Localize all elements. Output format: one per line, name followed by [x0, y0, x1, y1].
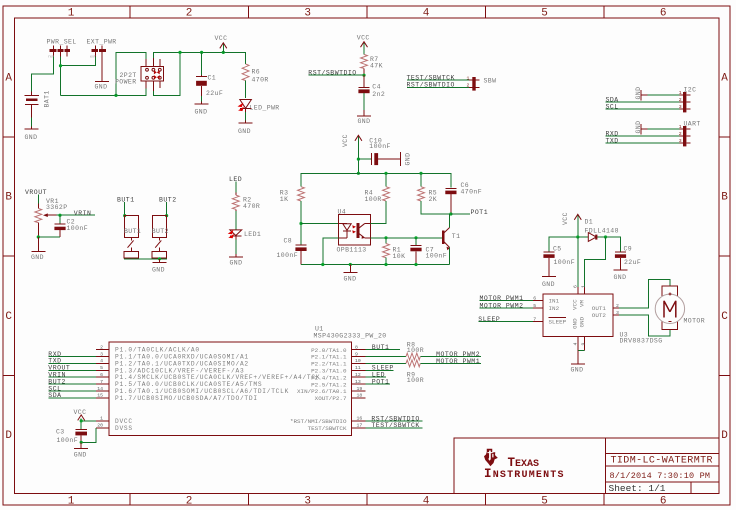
- supply VCC (U1): [74, 409, 87, 429]
- svg-text:13: 13: [355, 379, 361, 385]
- ground U3: [571, 351, 586, 374]
- net label LED (U1): [365, 372, 386, 379]
- net label RXD (U1): [48, 351, 96, 358]
- svg-text:GND: GND: [635, 87, 642, 100]
- U1 left pin names: [115, 347, 320, 432]
- svg-text:OPB1113: OPB1113: [337, 247, 367, 254]
- net label VROUT: [25, 189, 47, 203]
- svg-text:6: 6: [100, 372, 103, 378]
- SEC-CONN: [606, 86, 701, 146]
- svg-text:GND: GND: [542, 281, 555, 288]
- svg-text:D1: D1: [585, 219, 594, 226]
- resistor R5 2K: [418, 173, 438, 203]
- ground LED_PWR: [238, 121, 253, 135]
- wire U4 cathode to ground rail: [323, 238, 339, 265]
- net label POT1: [451, 209, 488, 216]
- connector UART: [679, 120, 701, 146]
- capacitor C5 100nF: [543, 245, 575, 276]
- wire R7 to C4: [363, 68, 365, 75]
- svg-text:22uF: 22uF: [206, 90, 223, 97]
- wire EXT_PWR pin 1 to PWR_SEL pin 2: [61, 57, 96, 66]
- svg-text:8: 8: [355, 344, 358, 350]
- net label BUT1: [117, 197, 135, 216]
- ground LED1: [229, 254, 243, 267]
- resistor R6 470R: [242, 64, 269, 84]
- svg-text:3: 3: [100, 351, 103, 357]
- svg-text:470nF: 470nF: [461, 189, 483, 196]
- svg-text:IN1: IN1: [549, 297, 560, 304]
- capacitor C8 100nF: [277, 238, 307, 265]
- net label BUT2 (U1): [48, 378, 96, 385]
- svg-text:100R: 100R: [407, 347, 424, 354]
- wire VCC rail to C1: [201, 52, 203, 75]
- ground EXT_PWR: [95, 57, 110, 91]
- svg-text:470R: 470R: [243, 203, 260, 210]
- svg-text:1: 1: [68, 495, 75, 507]
- wire pot bottom rail: [38, 236, 60, 238]
- supply VCC (R7): [357, 34, 370, 54]
- junction: [384, 263, 387, 266]
- svg-text:GND: GND: [152, 266, 165, 273]
- title block box: [454, 438, 719, 494]
- net label TXD: [606, 137, 680, 144]
- wire battery to ground: [31, 118, 33, 127]
- svg-text:47K: 47K: [370, 63, 383, 70]
- svg-text:GND: GND: [572, 318, 579, 329]
- ground UART pin1: [635, 121, 679, 135]
- svg-text:16: 16: [357, 416, 363, 422]
- net label VROUT (U1): [48, 365, 96, 372]
- junction: [158, 257, 161, 260]
- svg-text:5: 5: [533, 303, 536, 309]
- capacitor C10 100nF: [358, 138, 394, 166]
- net label RST/SBWTDIO (U1): [365, 415, 422, 422]
- svg-text:SBW: SBW: [484, 78, 497, 85]
- switch BUT2: [152, 216, 169, 259]
- svg-text:3: 3: [616, 310, 619, 316]
- wire PWR_SEL pin 2 down: [60, 57, 62, 96]
- switch S1 2P2T POWER: [115, 58, 164, 91]
- svg-text:C3: C3: [56, 428, 65, 435]
- svg-text:GND: GND: [579, 316, 586, 327]
- U1 right pin names: [290, 347, 347, 432]
- svg-text:15: 15: [97, 393, 103, 399]
- junction: [384, 236, 387, 239]
- net label BUT2: [159, 197, 177, 216]
- supply VCC (sensor): [342, 134, 362, 173]
- svg-text:20: 20: [97, 423, 103, 429]
- wire sensor ground rail: [301, 264, 450, 266]
- wire LED1 to ground: [235, 240, 237, 255]
- svg-text:GND: GND: [74, 452, 87, 459]
- svg-text:7: 7: [100, 379, 103, 385]
- svg-text:GND: GND: [31, 254, 44, 261]
- ground C5: [542, 277, 556, 288]
- ground I2C pin1: [635, 87, 679, 101]
- SEC-POWER: [24, 35, 279, 141]
- svg-text:VM: VM: [579, 299, 586, 307]
- svg-text:12: 12: [355, 372, 361, 378]
- junction: [349, 263, 352, 266]
- svg-text:5: 5: [100, 365, 103, 371]
- junction: [321, 263, 324, 266]
- svg-text:D: D: [721, 430, 728, 442]
- wire switch common to VCC rail: [153, 52, 245, 95]
- jumper PWR_SEL: [47, 39, 77, 60]
- svg-text:100nF: 100nF: [369, 143, 391, 150]
- svg-text:B: B: [721, 192, 728, 204]
- connector I2C: [679, 86, 697, 112]
- U1 left pin lines: [96, 350, 109, 428]
- svg-text:6: 6: [660, 495, 667, 507]
- svg-text:SLEEP: SLEEP: [549, 319, 567, 326]
- svg-text:D: D: [5, 430, 12, 442]
- svg-text:4: 4: [423, 495, 430, 507]
- ground C1: [195, 102, 209, 116]
- ground C4: [357, 110, 371, 125]
- svg-text:100R: 100R: [365, 196, 382, 203]
- capacitor C6 470nF: [445, 182, 482, 214]
- junction: [80, 441, 83, 444]
- wire U4 emitter / base node: [370, 237, 443, 239]
- svg-text:DVSS: DVSS: [115, 425, 133, 432]
- resistor R3 1K: [280, 187, 305, 203]
- svg-text:3362P: 3362P: [46, 204, 68, 211]
- svg-text:A: A: [5, 73, 12, 85]
- net label RST/SBWTDIO (SBW): [407, 81, 470, 88]
- junction: [576, 235, 579, 238]
- SEC-TITLE: [454, 438, 719, 494]
- motor M1: [655, 286, 705, 329]
- svg-text:C5: C5: [553, 245, 562, 252]
- svg-text:DRV8837DSG: DRV8837DSG: [620, 338, 663, 345]
- junction: [449, 212, 452, 215]
- wire VCC to pin 1: [81, 420, 96, 422]
- net label LED: [229, 176, 242, 193]
- net label RST/SBWTDIO: [308, 69, 364, 76]
- logo Texas Instruments: [484, 449, 565, 482]
- svg-text:VCC: VCC: [357, 34, 370, 41]
- svg-text:GND: GND: [95, 84, 108, 91]
- svg-text:6: 6: [660, 7, 667, 19]
- diode D1 FDLL4148: [585, 219, 619, 242]
- IC U3 DRV8837DSG: [533, 285, 663, 351]
- wire R3 to U4 anode node: [300, 201, 302, 245]
- junction: [123, 214, 126, 217]
- svg-text:VROUT: VROUT: [25, 189, 47, 196]
- U1 right pin numbers: [355, 344, 362, 428]
- U1 right pin lines: [352, 350, 366, 428]
- svg-text:9: 9: [355, 351, 358, 357]
- svg-text:2: 2: [616, 303, 619, 309]
- svg-text:4: 4: [423, 7, 430, 19]
- svg-text:14: 14: [97, 386, 103, 392]
- svg-text:C1: C1: [208, 75, 217, 82]
- junction: [37, 235, 40, 238]
- svg-text:10K: 10K: [393, 253, 406, 260]
- svg-text:GND: GND: [358, 118, 371, 125]
- svg-text:VCC: VCC: [74, 409, 87, 416]
- wire battery to PWR_SEL pin 1: [32, 57, 54, 92]
- svg-text:BUT2: BUT2: [152, 228, 169, 235]
- title block row lines: [606, 453, 720, 493]
- svg-text:5: 5: [541, 495, 548, 507]
- svg-text:GND: GND: [195, 109, 208, 116]
- net label RXD: [606, 131, 680, 138]
- wire pin 20 to C3: [81, 428, 96, 443]
- capacitor C2 100nF: [54, 218, 88, 237]
- net label MOTOR_PWM2 (U3): [480, 303, 534, 310]
- net label VRIN (U1): [48, 372, 96, 379]
- battery BAT1: [24, 90, 50, 117]
- svg-text:10: 10: [355, 358, 361, 364]
- svg-text:PWR_SEL: PWR_SEL: [47, 39, 77, 46]
- svg-text:470R: 470R: [252, 77, 269, 84]
- capacitor C9 22uF: [615, 245, 641, 270]
- net label SDA (U1): [48, 392, 96, 399]
- svg-text:C: C: [5, 311, 12, 323]
- SEC-POT: [25, 189, 95, 261]
- net label MOTOR_PWM1 (U3): [480, 295, 534, 302]
- ground VR1: [31, 237, 45, 261]
- svg-text:EXT_PWR: EXT_PWR: [87, 39, 117, 46]
- wire R2 to LED1: [235, 211, 237, 230]
- wire left loop to switch top: [116, 52, 146, 95]
- svg-text:5: 5: [541, 7, 548, 19]
- junction: [604, 235, 607, 238]
- junction: [357, 172, 360, 175]
- svg-text:Sheet: 1/1: Sheet: 1/1: [609, 483, 666, 494]
- svg-text:GND: GND: [344, 276, 357, 283]
- ground C3: [74, 442, 88, 458]
- wire R6 to LED_PWR: [245, 81, 247, 99]
- svg-text:100nF: 100nF: [67, 225, 89, 232]
- svg-text:TEXAS: TEXAS: [508, 456, 540, 470]
- wire VCC rail (motor): [549, 237, 621, 252]
- U1 left pin numbers: [97, 344, 103, 428]
- svg-text:XOUT/P2.7: XOUT/P2.7: [315, 395, 347, 402]
- svg-text:VCC: VCC: [562, 212, 569, 225]
- ground battery: [25, 127, 39, 142]
- supply VCC (motor): [562, 212, 581, 237]
- svg-text:GND: GND: [25, 134, 38, 141]
- svg-text:4: 4: [100, 358, 103, 364]
- supply VCC: [215, 35, 228, 53]
- junction: [299, 222, 302, 225]
- wire anode node to U4: [301, 223, 339, 225]
- svg-text:22uF: 22uF: [624, 259, 641, 266]
- junction: [222, 51, 225, 54]
- svg-text:POT1: POT1: [471, 209, 489, 216]
- svg-text:3: 3: [304, 495, 311, 507]
- svg-text:POWER: POWER: [115, 79, 137, 86]
- net label TXD (U1): [48, 358, 96, 365]
- svg-text:GND: GND: [405, 153, 412, 166]
- net label SLEEP (U1): [365, 365, 393, 372]
- net label POT1 (U1): [365, 379, 390, 386]
- net label SCL (U1): [48, 385, 96, 392]
- resistor R1 10K: [383, 238, 406, 265]
- wire OUT1 to motor: [619, 280, 670, 308]
- svg-text:BUT1: BUT1: [117, 197, 135, 204]
- svg-text:LED_PWR: LED_PWR: [250, 104, 280, 111]
- net label SLEEP (U3): [478, 316, 533, 323]
- junction: [59, 64, 62, 67]
- svg-text:2K: 2K: [429, 196, 438, 203]
- capacitor C4 2n2: [358, 75, 385, 110]
- svg-text:C9: C9: [624, 245, 633, 252]
- svg-text:VCC: VCC: [572, 299, 579, 310]
- svg-text:TEST/SBWTCK: TEST/SBWTCK: [308, 425, 347, 432]
- junction: [384, 172, 387, 175]
- svg-text:IN2: IN2: [549, 305, 560, 312]
- potentiometer VR1 3362P: [35, 198, 68, 237]
- svg-text:2: 2: [186, 495, 193, 507]
- wire buttons to ground: [124, 258, 167, 260]
- svg-text:P1.7/UCB0SIMO/UCB0SDA/A7/TDO/T: P1.7/UCB0SIMO/UCB0SDA/A7/TDO/TDI: [115, 395, 258, 402]
- SEC-SENSOR: [277, 134, 489, 283]
- resistor R8 100R: [365, 342, 424, 360]
- svg-text:8/1/2014 7:30:10 PM: 8/1/2014 7:30:10 PM: [610, 471, 711, 481]
- junction: [114, 94, 117, 97]
- svg-text:INSTRUMENTS: INSTRUMENTS: [484, 467, 565, 481]
- wire bottom rail to switch: [61, 89, 146, 96]
- net label TEST/SBWTCK: [407, 74, 470, 81]
- junction: [80, 419, 83, 422]
- svg-text:R6: R6: [252, 69, 261, 76]
- svg-text:2n2: 2n2: [372, 91, 385, 98]
- capacitor C1 22uF: [196, 75, 223, 98]
- switch BUT1: [124, 216, 141, 259]
- svg-text:GND: GND: [614, 274, 627, 281]
- svg-text:VRIN: VRIN: [74, 210, 92, 217]
- svg-text:100nF: 100nF: [554, 259, 576, 266]
- capacitor C3 100nF: [56, 428, 87, 444]
- SEC-LED: [228, 176, 262, 267]
- svg-text:3: 3: [304, 7, 311, 19]
- svg-text:BUT1: BUT1: [124, 228, 141, 235]
- svg-text:2: 2: [100, 344, 103, 350]
- svg-text:7: 7: [533, 317, 536, 323]
- svg-text:1: 1: [100, 416, 103, 422]
- svg-text:C: C: [721, 311, 728, 323]
- net label BUT1 (U1): [365, 344, 400, 351]
- junction: [200, 51, 203, 54]
- svg-text:17: 17: [357, 423, 363, 429]
- svg-text:B: B: [5, 192, 12, 204]
- svg-text:100nF: 100nF: [426, 253, 448, 260]
- net label SDA: [606, 97, 680, 104]
- svg-text:TIDM-LC-WATERMTR: TIDM-LC-WATERMTR: [611, 456, 713, 467]
- junction: [357, 158, 360, 161]
- svg-text:T1: T1: [452, 233, 461, 240]
- svg-text:GND: GND: [571, 367, 584, 374]
- svg-text:A: A: [721, 73, 728, 85]
- svg-text:VCC: VCC: [215, 35, 228, 42]
- svg-text:11: 11: [355, 365, 361, 371]
- transistor T1: [443, 214, 460, 265]
- wire VCC rail (sensor): [301, 173, 451, 187]
- svg-text:BAT1: BAT1: [44, 90, 51, 107]
- ground buttons: [152, 259, 167, 274]
- ground C10: [394, 152, 411, 166]
- resistor R7 47K: [361, 54, 383, 69]
- svg-text:2: 2: [186, 7, 193, 19]
- LED LED1: [228, 230, 262, 240]
- svg-text:100nF: 100nF: [277, 252, 299, 259]
- LED LED_PWR: [238, 100, 280, 113]
- net label MOTOR_PWM1 (R9): [420, 358, 481, 365]
- SEC-MCU: [48, 326, 481, 459]
- svg-text:LED1: LED1: [244, 231, 261, 238]
- svg-text:1K: 1K: [280, 196, 289, 203]
- title block divider vertical: [605, 438, 607, 494]
- svg-text:100R: 100R: [407, 377, 424, 384]
- svg-text:OUT2: OUT2: [592, 312, 607, 319]
- opto sensor U4 OPB1113: [337, 208, 371, 253]
- wire C1 to ground: [201, 96, 203, 102]
- wire OUT2 to motor: [619, 315, 670, 336]
- junction: [178, 51, 181, 54]
- svg-text:BUT2: BUT2: [159, 197, 177, 204]
- resistor R9 100R: [365, 360, 424, 384]
- jumper EXT_PWR: [87, 39, 117, 60]
- svg-text:VCC: VCC: [342, 134, 349, 147]
- svg-text:9: 9: [580, 343, 586, 346]
- SEC-RESET: [308, 34, 496, 125]
- wire wiper to C2: [59, 215, 61, 223]
- wire R5 bottom to POT1 node: [421, 201, 451, 214]
- svg-text:19: 19: [357, 386, 363, 392]
- svg-text:4: 4: [572, 343, 578, 346]
- svg-text:1: 1: [581, 285, 587, 288]
- wire diode node to U3 VM pin: [585, 237, 606, 287]
- wire U4 collector to R4: [370, 201, 386, 224]
- svg-text:MSP430G2333_PW_20: MSP430G2333_PW_20: [314, 332, 387, 339]
- wire VCC to U3 VCC pin: [577, 237, 579, 287]
- resistor R2 470R: [232, 193, 260, 211]
- svg-text:GND: GND: [635, 121, 642, 134]
- junction: [165, 214, 168, 217]
- IC U1 MSP430G2333: [109, 326, 387, 436]
- svg-text:18: 18: [357, 393, 363, 399]
- svg-text:6: 6: [533, 295, 536, 301]
- connector SBW: [467, 75, 497, 90]
- net label TEST/SBWTCK (U1): [365, 422, 422, 429]
- resistor R4 100R: [365, 173, 390, 203]
- junction: [362, 74, 365, 77]
- SEC-BUT: [117, 197, 177, 274]
- svg-text:6: 6: [573, 285, 579, 288]
- svg-text:1: 1: [68, 7, 75, 19]
- ground sensor rail: [343, 265, 357, 283]
- net label MOTOR_PWM2 (R8): [420, 351, 481, 358]
- svg-text:C8: C8: [284, 238, 293, 245]
- junction: [414, 236, 417, 239]
- junction: [419, 172, 422, 175]
- net label VRIN (wiper): [57, 210, 95, 217]
- svg-text:C4: C4: [372, 84, 381, 91]
- svg-text:GND: GND: [230, 260, 243, 267]
- svg-text:MOTOR: MOTOR: [684, 318, 706, 325]
- SEC-MOTOR: [478, 212, 705, 373]
- capacitor C7 100nF: [410, 238, 447, 265]
- junction: [58, 214, 61, 217]
- svg-text:GND: GND: [238, 128, 251, 135]
- ground C9: [614, 270, 628, 281]
- junction: [414, 263, 417, 266]
- svg-text:100nF: 100nF: [57, 437, 79, 444]
